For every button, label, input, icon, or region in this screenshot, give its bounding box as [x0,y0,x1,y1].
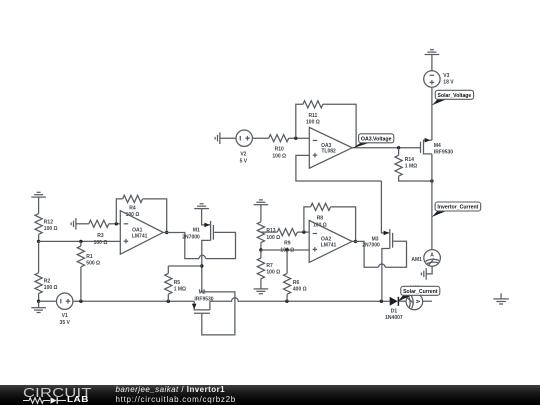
flag Solar_Current [398,286,440,301]
wire R11 right [323,104,356,148]
wire OA3 output to M4 gate [352,147,420,149]
svg-text:100 Ω: 100 Ω [266,235,280,241]
wire [398,300,406,302]
label V3 18V [443,73,454,86]
label R8 100 ohm [313,216,327,229]
svg-text:1 MΩ: 1 MΩ [405,164,417,170]
svg-text:R4: R4 [129,205,136,211]
svg-text:LM741: LM741 [321,242,337,248]
label R1 500 ohm [86,254,100,267]
svg-text:100 Ω: 100 Ω [272,153,286,159]
voltage source V1 35V [56,293,72,309]
svg-text:M1: M1 [193,228,200,234]
svg-text:R9: R9 [284,241,291,247]
svg-text:M3: M3 [372,236,379,242]
wire M3 source down [382,249,390,302]
svg-text:R13: R13 [266,228,275,234]
wire V3 to M4 source [431,87,433,140]
label R13 100 ohm [266,228,280,241]
junction V1 minus node [37,300,40,303]
wire [289,137,310,139]
svg-text:R14: R14 [405,157,414,163]
ground (left of R3) [71,218,76,230]
op-amp OA3 TL082 [309,127,352,168]
op-amp OA1 LM741 [120,211,163,255]
wire OA3 + input chain [296,155,382,181]
svg-text:R1: R1 [86,254,93,260]
svg-text:R12: R12 [44,219,53,225]
svg-text:D1: D1 [391,309,398,315]
svg-text:100 Ω: 100 Ω [44,285,58,291]
svg-text:1 MΩ: 1 MΩ [174,287,186,293]
svg-text:5 V: 5 V [240,158,248,164]
wire [260,243,262,250]
wire hop over M1 source [199,255,206,258]
resistor R12 [35,214,42,235]
svg-text:IRF9530: IRF9530 [434,149,453,155]
junction R14 / drain rail [430,179,433,182]
svg-text:LM741: LM741 [132,233,148,239]
ground (top right) [425,50,440,55]
label V2 5V [240,152,248,165]
resistor R8 [311,203,331,210]
voltage source V3 18V [424,71,440,87]
wire [286,250,288,273]
resistor R9 [277,229,297,236]
label R3 100 ohm [94,233,108,246]
svg-text:TL082: TL082 [321,149,336,155]
ground (left of V2) [215,132,220,144]
ground (below AM1) [421,268,426,280]
wire R9 left [261,231,277,233]
resistor R2 [35,273,42,294]
wire [167,294,169,301]
svg-text:R2: R2 [44,278,51,284]
svg-text:M4: M4 [434,143,441,149]
ground (top left) [31,192,46,197]
transistor M3 2N7000 [362,229,392,249]
CircuitLab logo resistor+diode symbol [23,396,67,405]
wire [76,223,89,225]
svg-text:A: A [430,253,434,259]
wire AM1 to ground [426,266,432,274]
junction OA2 inverting input [302,230,305,233]
label R5 1 Mohm [174,280,186,293]
credit line 1 [116,385,226,394]
label R12 100 ohm [44,219,58,232]
wire [38,197,40,214]
label V1 35V [60,313,71,326]
label R14 1 Mohm [405,157,417,170]
svg-text:R6: R6 [293,280,300,286]
svg-text:100 Ω: 100 Ω [266,270,280,276]
wire to OA2 + input [261,249,309,251]
svg-text:Solar_Voltage: Solar_Voltage [438,93,472,99]
svg-text:35 V: 35 V [60,320,71,326]
wire R4 feedback left [116,199,122,224]
svg-text:OA3.Voltage: OA3.Voltage [361,136,392,142]
wire hop over M3 source [379,264,386,267]
wire [260,250,262,258]
svg-text:R5: R5 [174,280,181,286]
wire R8 left [304,207,311,232]
svg-text:V1: V1 [62,313,68,319]
wire [286,294,288,301]
resistor R4 [123,195,143,202]
wire [80,267,82,301]
wire M3 drain from OA3 node [381,181,389,233]
svg-text:Invertor_Current: Invertor_Current [437,205,478,211]
svg-text:2N7000: 2N7000 [182,235,200,241]
ammeter AM1 [424,250,441,267]
junction M3 source / rail [380,300,383,303]
resistor R10 [269,135,289,142]
wire to M1 gate [206,232,236,258]
transistor M1 2N7000 [182,221,213,241]
wire R4 feedback right [143,199,167,233]
junction node R12/R2 [37,240,40,243]
flag OA3.Voltage [353,134,394,148]
ground (below R2) [31,308,46,313]
wire M4 drain down to AM1 [431,154,433,250]
ground (above M1) [194,204,209,209]
resistor R14 [395,155,402,176]
resistor R11 [303,101,323,108]
wire [398,148,400,156]
svg-text:AM1: AM1 [411,257,422,263]
wire [220,137,237,139]
junction R6 top [285,248,288,251]
svg-text:R11: R11 [308,113,317,119]
label R4 100 ohm [126,205,140,218]
svg-text:R10: R10 [275,147,284,153]
junction R13/R7 [259,248,262,251]
wire R14 bottom [399,176,432,181]
ground (above R13) [254,200,269,205]
junction OA1 inverting input [115,222,118,225]
credit line 2 [116,395,236,404]
transistor M4 IRF9530 [421,138,454,156]
ammeter AM2 [406,293,423,310]
transistor M2 IRF9530 [192,289,214,313]
svg-text:Solar_Current: Solar_Current [403,289,438,295]
wire [431,55,433,71]
junction OA3 inverting input [294,137,297,140]
CircuitLab logo text CIRCUIT [23,385,92,400]
svg-text:400 Ω: 400 Ω [293,287,307,293]
wire [167,266,169,273]
wire OA1 output down [163,233,199,259]
label R2 100 ohm [44,278,58,291]
junction R14 top / M4 gate [397,146,400,149]
flag Invertor_Current [432,202,481,217]
svg-text:R7: R7 [266,263,273,269]
svg-text:100 Ω: 100 Ω [44,226,58,232]
wire R8 right [331,207,356,242]
svg-text:500 Ω: 500 Ω [86,261,100,267]
svg-text:2N7000: 2N7000 [362,243,380,249]
wire [252,137,268,139]
wire [39,300,57,302]
svg-text:M2: M2 [199,289,206,295]
wire [38,234,40,241]
wire M1 source down [202,240,211,292]
svg-text:V2: V2 [240,152,246,158]
wire M1 source to M2 gate [202,292,235,335]
wire [80,241,82,246]
wire to OA1 + input [39,240,121,242]
junction R5 bottom [167,300,170,303]
label R10 100 ohm [272,147,286,160]
wire [423,300,432,302]
svg-text:R8: R8 [317,216,324,222]
junction R1 top [79,240,82,243]
resistor R6 [284,273,291,294]
op-amp OA2 LM741 [309,220,352,262]
footer bar [0,385,540,405]
label R9 100 ohm [280,241,294,254]
wire to M3 gate [385,241,406,267]
svg-text:100 Ω: 100 Ω [306,120,320,126]
ground (below R7) [254,289,269,294]
wire [260,279,262,289]
junction R6 bottom [285,300,288,303]
wire [260,205,262,222]
resistor R13 [257,222,264,243]
svg-text:1N4007: 1N4007 [385,315,403,321]
label R6 400 ohm [293,280,307,293]
logo text LAB [67,395,89,404]
wire OA2 output down [352,241,378,267]
svg-text:A: A [414,300,420,304]
junction R1 bottom [79,300,82,303]
resistor R3 [89,220,109,227]
junction M1 source / R5 [200,264,203,267]
wire bottom rail right (hops over M2 gate riser) [210,298,390,301]
wire R9 right [297,231,309,233]
wire [38,301,40,308]
junction OA1 output [165,231,168,234]
svg-text:18 V: 18 V [443,80,454,86]
svg-text:R3: R3 [97,233,104,239]
flag Solar_Voltage [432,90,474,105]
diode D1 1N4007 [385,297,403,321]
wire to R5 [168,265,202,267]
label R11 100 ohm [306,113,320,126]
resistor R7 [257,258,264,279]
svg-text:100 Ω: 100 Ω [94,240,108,246]
ground (far right) [493,293,508,304]
wire M1 drain [202,209,211,225]
resistor R1 [77,246,84,267]
wire [38,294,40,302]
wire bottom rail left [73,300,194,302]
wire R11 left [296,104,303,138]
label R7 100 ohm [266,263,280,276]
junction OA2 output [354,240,357,243]
wire [38,241,40,272]
resistor R5 [165,273,172,294]
wire [109,223,121,225]
voltage source V2 5V [236,130,252,146]
svg-text:V3: V3 [443,73,449,79]
